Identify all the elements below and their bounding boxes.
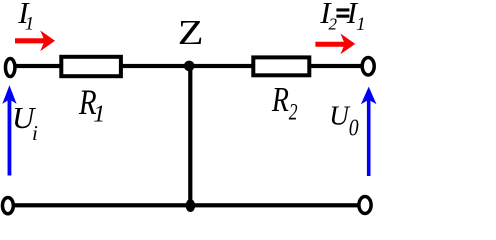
terminal bottom-left bbox=[2, 197, 13, 213]
svg-text:R: R bbox=[271, 80, 289, 119]
wire vertical node Z to bottom rail bbox=[188, 66, 192, 206]
wire node Z to R2 bbox=[189, 64, 254, 68]
terminal top-left bbox=[5, 58, 15, 76]
terminal bottom-right bbox=[359, 197, 371, 214]
wire bottom rail right segment bbox=[187, 203, 360, 207]
svg-text:0: 0 bbox=[349, 113, 359, 141]
label U0 bbox=[329, 100, 358, 141]
current arrow I1 bbox=[15, 30, 55, 51]
label I1 bbox=[17, 0, 34, 35]
wire bottom rail left segment bbox=[12, 203, 187, 207]
current arrow I2 bbox=[315, 34, 355, 55]
bottom junction dot bbox=[186, 199, 196, 212]
svg-text:2: 2 bbox=[329, 15, 338, 34]
terminal top-right bbox=[362, 57, 374, 75]
resistor R1 bbox=[61, 57, 121, 76]
label R1 bbox=[78, 83, 105, 127]
svg-text:Z: Z bbox=[178, 13, 204, 52]
node Z junction dot bbox=[184, 61, 195, 72]
wire R2 to top-right terminal bbox=[309, 64, 362, 68]
voltage arrow U0 bbox=[361, 87, 377, 176]
svg-text:2: 2 bbox=[289, 99, 298, 125]
svg-text:1: 1 bbox=[356, 14, 366, 35]
label R2 bbox=[271, 80, 297, 125]
label Ui bbox=[12, 100, 38, 145]
label I2=I1 bbox=[319, 0, 365, 35]
svg-text:1: 1 bbox=[25, 14, 35, 35]
svg-text:1: 1 bbox=[93, 100, 105, 127]
wire R1 to node Z bbox=[120, 64, 190, 68]
svg-text:i: i bbox=[32, 121, 38, 145]
resistor R2 bbox=[253, 57, 309, 75]
wire top-left segment bbox=[13, 64, 63, 68]
voltage arrow Ui bbox=[2, 85, 16, 175]
